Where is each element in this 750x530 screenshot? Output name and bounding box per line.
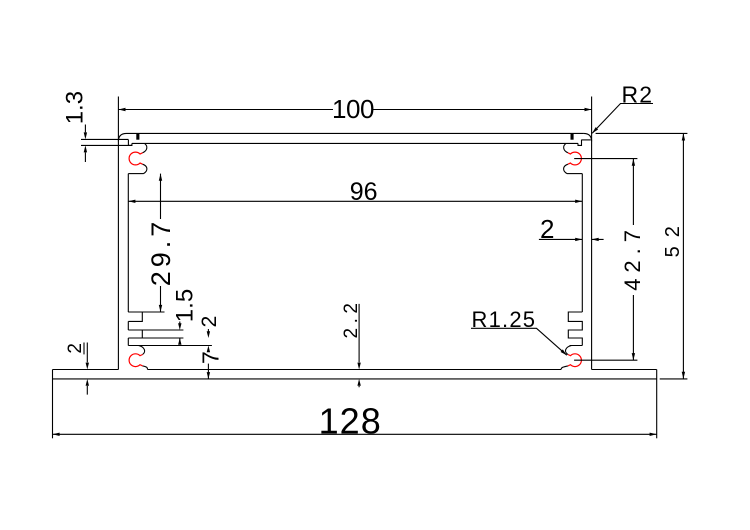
svg-text:7: 7 [197, 351, 223, 364]
svg-text:1.5: 1.5 [172, 289, 199, 322]
profile top outer surface [127, 132, 584, 134]
dimension 100 arrow left [118, 108, 125, 111]
cover groove notch left [136, 133, 139, 139]
dimension 128 arrows [53, 433, 60, 436]
svg-text:42.7: 42.7 [620, 224, 645, 291]
radius callout R2 arrow [592, 127, 598, 133]
dimension 2 flange-left side tick [83, 343, 85, 355]
boss bracket top-left [128, 173, 143, 175]
dimension 7 extension line [128, 345, 212, 347]
svg-text:100: 100 [332, 94, 374, 124]
right lip barb [578, 140, 582, 146]
screw boss U2 top-right red thread arc R1.25 [568, 152, 581, 165]
boss bracket top-right [567, 173, 582, 175]
dimension 96 arrow right [575, 200, 582, 203]
dimension 52 extension lines [596, 133, 688, 379]
dimension 7 arrows [207, 346, 210, 353]
base flange top surface outside-left [53, 369, 119, 371]
dimension 1.3 arrow upper [84, 132, 87, 139]
radius callout R1.25 leader [471, 328, 567, 355]
radius callout R1.25 arrow [561, 349, 567, 355]
dimension 2 right wall arrows [575, 238, 582, 241]
base flange left edge with 128 extension [52, 370, 54, 439]
cover groove notch right [571, 133, 574, 139]
dimension 100 arrow right [585, 108, 592, 111]
dimension 42.7 extension lines through wall [574, 159, 637, 361]
screw boss U1 top-left black hooks [143, 143, 147, 173]
dimension 1.5 line [179, 322, 181, 345]
screw boss U3 bottom-left black hooks [139, 346, 148, 370]
radius callout R2 leader [592, 104, 653, 134]
dimension 29.7 arrows [159, 174, 162, 181]
screw boss U3 bottom-left red thread arc R1.25 [129, 354, 142, 367]
dimension 29.7 line [160, 174, 162, 312]
right wall card-guide teeth [568, 312, 582, 346]
dimension 42.7 arrows [632, 159, 635, 166]
dimension 2 fin line [207, 329, 209, 332]
svg-text:2: 2 [198, 316, 221, 328]
screw boss U4 bottom-right red thread arc R1.25 [568, 354, 581, 367]
base flange right edge with 128 extension [656, 370, 658, 439]
left lip barb [128, 140, 132, 146]
left wall inner edge [127, 174, 129, 312]
dimension 100 line [118, 109, 591, 111]
dimension 42.7 line [632, 159, 634, 361]
top wall underside [132, 142, 578, 144]
right wall outer edge [591, 141, 593, 369]
base flange top surface outside-right [592, 369, 657, 371]
svg-text:1.3: 1.3 [62, 91, 89, 124]
svg-text:29.7: 29.7 [146, 218, 176, 287]
left wall outer edge [117, 141, 119, 369]
dimension 7 line [207, 364, 209, 379]
dimension 2 flange-left line [86, 343, 88, 395]
svg-text:96: 96 [350, 178, 378, 206]
svg-text:52: 52 [662, 217, 684, 257]
dimension 2 right wall line [539, 238, 604, 240]
dimension 29.7 extension line [128, 311, 164, 313]
svg-text:128: 128 [319, 401, 382, 442]
svg-text:R1.25: R1.25 [472, 307, 537, 332]
right wall inner edge [581, 174, 583, 312]
base flange bottom surface [53, 378, 657, 380]
dimension 2.2 line [358, 304, 360, 387]
top-right corner arc R2 [584, 133, 592, 141]
screw boss U1 top-left red thread arc R1.25 [129, 152, 142, 165]
screw boss U2 top-right black hooks [564, 143, 568, 173]
dimension 52 line [682, 133, 684, 379]
dimension 1.5 arrows [178, 323, 181, 330]
dimension 2 flange-left arrows [86, 363, 89, 370]
interior floor line [148, 369, 562, 371]
left wall card-guide teeth [128, 312, 142, 346]
dimension 96 arrow left [128, 200, 135, 203]
svg-text:2: 2 [65, 343, 86, 354]
dimension 1.3 line [84, 125, 86, 163]
dimension 100 extension line right [591, 97, 593, 142]
dimension 52 arrows [682, 133, 685, 140]
dimension 2.2 arrows [357, 363, 360, 370]
svg-text:2: 2 [540, 214, 554, 244]
dimension 1.5 extension lines [128, 312, 183, 338]
svg-text:R2: R2 [622, 82, 654, 108]
dimension 2 fin arrow [207, 331, 210, 338]
dimension 128 line [53, 433, 657, 435]
top-left corner arc R2 [118, 133, 126, 141]
dimension 1.3 arrow lower [84, 145, 87, 152]
right corner recess line [582, 139, 591, 141]
svg-text:2.2: 2.2 [341, 299, 362, 339]
dimension 96 line [128, 200, 582, 202]
dimension 100 extension line left [117, 97, 119, 142]
dimension 1.3 extension lines [81, 139, 132, 145]
screw boss U4 bottom-right black hooks [561, 346, 571, 370]
